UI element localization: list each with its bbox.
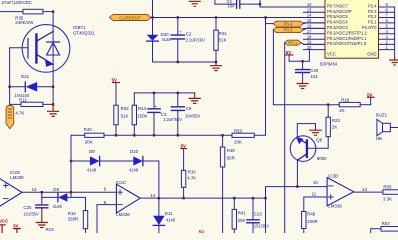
svg-text:BUZ1: BUZ1 — [376, 113, 388, 118]
svg-text:P2.1: P2.1 — [368, 20, 377, 25]
wire D9 to D10 — [100, 160, 134, 162]
IGBT gate bar — [27, 39, 29, 59]
node R12 right — [52, 103, 54, 105]
svg-text:20K: 20K — [238, 218, 246, 223]
svg-text:104: 104 — [310, 74, 318, 79]
IC U1 MCU body — [325, 0, 379, 58]
node D21 right — [52, 86, 54, 88]
ground below C20 — [297, 84, 308, 89]
node C23 — [252, 197, 254, 199]
svg-text:13: 13 — [362, 187, 367, 192]
svg-text:2K: 2K — [332, 125, 337, 130]
svg-text:C3: C3 — [161, 112, 167, 117]
svg-text:D11: D11 — [165, 211, 173, 216]
capacitor C9 — [177, 93, 179, 107]
svg-text:IC2C: IC2C — [116, 180, 126, 185]
wire base net P0.3 to R19 — [273, 104, 339, 106]
svg-text:56R: 56R — [227, 155, 235, 160]
node C2 top — [177, 16, 179, 18]
node bus R32 — [115, 134, 117, 136]
resistor R22 — [327, 105, 329, 118]
svg-text:CURRENT: CURRENT — [119, 15, 141, 20]
svg-text:4.7K: 4.7K — [15, 110, 24, 115]
wire D30/C2 bottoms to ground — [153, 61, 217, 63]
node D9 tap — [70, 160, 72, 162]
ground below R31 — [211, 66, 222, 71]
svg-text:R49: R49 — [227, 148, 236, 153]
node R22 top — [327, 104, 329, 106]
svg-text:IC3D: IC3D — [328, 173, 338, 178]
IGBT internal diode — [47, 41, 60, 43]
wire top vertical into CURRENT node — [152, 0, 154, 18]
svg-text:51K: 51K — [219, 38, 227, 43]
svg-text:.27uF/1200VDC: .27uF/1200VDC — [1, 0, 33, 5]
svg-text:C20: C20 — [310, 68, 319, 73]
wire R35 to node — [43, 11, 53, 13]
svg-text:100R: 100R — [307, 219, 318, 224]
wire analog bus — [104, 134, 232, 136]
node bus C9 — [177, 134, 179, 136]
diode D9 — [71, 160, 90, 162]
svg-text:GND: GND — [367, 51, 376, 56]
wire to MCU pin12 — [260, 0, 325, 7]
svg-text:R50: R50 — [234, 128, 243, 133]
svg-text:51K: 51K — [121, 113, 129, 118]
svg-text:P0.3: P0.3 — [283, 28, 293, 33]
svg-text:P2.2: P2.2 — [368, 14, 377, 19]
capacitor C2 — [177, 18, 179, 36]
svg-text:R48: R48 — [307, 212, 316, 217]
capacitor C6 — [215, 0, 236, 4]
node R10 — [182, 197, 184, 199]
connector pin 1 (yellow) — [6, 105, 14, 128]
svg-text:20K: 20K — [234, 140, 242, 145]
resistor R32 — [114, 105, 118, 125]
svg-text:R10: R10 — [188, 170, 197, 175]
svg-text:13: 13 — [32, 187, 37, 192]
svg-text:104/35V: 104/35V — [185, 113, 201, 118]
wire emitter down — [52, 42, 54, 87]
svg-text:104: 104 — [228, 3, 236, 8]
capacitor C20 — [302, 61, 304, 69]
resistor R35 — [23, 9, 43, 14]
IGBT emitter diagonal — [37, 55, 53, 65]
wire top-left bus to R35 — [0, 11, 23, 13]
wire D8 to R15 — [67, 197, 85, 210]
node riser pin10 — [264, 197, 266, 199]
svg-text:P2.4: P2.4 — [368, 4, 377, 9]
ground right of bus — [194, 93, 196, 98]
svg-text:D9: D9 — [89, 149, 95, 154]
svg-text:R15: R15 — [68, 211, 77, 216]
svg-text:R32: R32 — [121, 106, 130, 111]
svg-text:P0.3/ADC3: P0.3/ADC3 — [327, 25, 348, 30]
wire P0.1 net down — [284, 43, 286, 233]
svg-text:C25: C25 — [23, 205, 32, 210]
svg-text:4148: 4148 — [162, 37, 172, 42]
port P0.1 — [285, 40, 301, 45]
svg-text:R44: R44 — [138, 106, 147, 111]
node R40 riser — [70, 191, 72, 193]
ground emitter — [310, 130, 322, 135]
node bus R44 — [133, 134, 135, 136]
port CURRENT — [109, 14, 151, 20]
wire gate lead — [10, 47, 28, 49]
svg-text:5V: 5V — [13, 224, 18, 229]
ground MCU pin1 — [394, 57, 396, 59]
svg-text:HB: HB — [376, 136, 382, 141]
wire P0.4 tip to pin15 — [303, 22, 325, 25]
svg-text:150K: 150K — [137, 113, 147, 118]
svg-text:10: 10 — [313, 180, 318, 185]
node R41 — [233, 197, 235, 199]
resistor R49 — [222, 135, 224, 147]
capacitor C3 — [153, 93, 155, 109]
svg-text:P0.7/ADC7: P0.7/ADC7 — [327, 4, 348, 9]
svg-text:20K: 20K — [85, 140, 93, 145]
svg-text:C23: C23 — [254, 211, 263, 216]
svg-text:P0.2/ADC2/RST/P1.2: P0.2/ADC2/RST/P1.2 — [327, 30, 368, 35]
svg-text:20: 20 — [307, 45, 312, 50]
svg-text:GT40Q321: GT40Q321 — [73, 31, 95, 36]
svg-text:16: 16 — [307, 24, 312, 29]
diode D30 — [152, 18, 154, 35]
port P0.3 — [273, 27, 303, 32]
svg-text:D8: D8 — [53, 187, 59, 192]
node R31 bottom — [215, 61, 217, 63]
svg-text:C9: C9 — [186, 106, 192, 111]
wire P0.4 tip left — [266, 23, 274, 25]
svg-text:R41: R41 — [238, 211, 247, 216]
transistor Q6 — [290, 136, 316, 162]
svg-text:VCC: VCC — [327, 51, 336, 56]
node D11 — [158, 197, 160, 199]
node C6 right — [259, 3, 261, 5]
capacitor C23 — [252, 198, 254, 220]
IGBT emitter arrow — [45, 59, 53, 67]
svg-text:P0.1: P0.1 — [288, 40, 298, 45]
wire R22 to base — [307, 137, 328, 149]
IGBT body bar — [35, 35, 37, 63]
wire riser to IC3D pin10 — [266, 187, 328, 233]
wire P0.1 tip to pin19 — [301, 43, 325, 45]
svg-text:4148: 4148 — [87, 168, 97, 173]
resistor R41 — [233, 198, 235, 209]
node P0.4 riser — [264, 16, 266, 18]
svg-text:VCC: VCC — [0, 218, 9, 223]
wire IC2C pin8 — [97, 205, 116, 233]
svg-text:R40: R40 — [84, 127, 93, 132]
transistor IGBT1 circle — [22, 25, 70, 73]
svg-text:2.2uF/50V: 2.2uF/50V — [163, 117, 182, 122]
wire collector down — [296, 160, 298, 186]
svg-text:SDP9454: SDP9454 — [320, 62, 338, 67]
svg-text:5V: 5V — [181, 143, 186, 148]
svg-text:330R: 330R — [68, 217, 79, 222]
svg-text:4.7K: 4.7K — [187, 175, 196, 180]
svg-text:4148: 4148 — [166, 217, 176, 222]
svg-text:17: 17 — [307, 29, 312, 34]
svg-text:Q6: Q6 — [316, 138, 322, 143]
wire R44/C3/C9 top bus — [134, 92, 194, 94]
svg-text:P0.4/ADC4: P0.4/ADC4 — [327, 20, 348, 25]
svg-text:LM339: LM339 — [116, 212, 130, 217]
IGBT collector diagonal — [37, 32, 53, 42]
svg-text:8050: 8050 — [317, 156, 327, 161]
svg-text:D30: D30 — [161, 32, 170, 37]
node bus R49 — [221, 134, 223, 136]
IC U1 right pin numbers 9-1 — [386, 2, 389, 50]
wire D10 to comparator output — [143, 161, 159, 198]
node D30 top — [151, 16, 153, 18]
wire collector drop — [52, 12, 54, 42]
svg-text:11: 11 — [312, 192, 317, 197]
svg-text:D10: D10 — [130, 149, 139, 154]
svg-text:P2.0/T0: P2.0/T0 — [362, 25, 377, 30]
diode D8 — [42, 196, 58, 198]
svg-text:101/35V: 101/35V — [254, 223, 270, 228]
svg-text:LM339: LM339 — [328, 203, 342, 208]
svg-text:14: 14 — [150, 193, 155, 198]
ground at top edge — [189, 1, 200, 6]
svg-text:R31: R31 — [219, 31, 228, 36]
svg-text:P0.4: P0.4 — [283, 21, 293, 26]
svg-text:4148: 4148 — [129, 168, 139, 173]
wire IC2C out — [140, 197, 265, 199]
resistor R10 — [181, 170, 185, 187]
wire emitter to R12 level — [52, 87, 54, 105]
node C9 top — [177, 92, 179, 94]
svg-text:12: 12 — [307, 2, 312, 7]
port P0.4 — [273, 21, 303, 26]
IC U1 internal labels — [327, 4, 377, 57]
svg-text:R54: R54 — [382, 221, 391, 226]
svg-text:2K: 2K — [339, 108, 344, 113]
node collector tap — [296, 185, 298, 187]
node bus C3 — [153, 134, 155, 136]
svg-text:3.3K: 3.3K — [383, 197, 392, 202]
wire D21 left lead — [10, 86, 26, 88]
svg-text:C2: C2 — [186, 31, 192, 36]
wire D21 right lead — [37, 86, 53, 88]
node C2 bottom — [177, 61, 179, 63]
node C3 top — [153, 92, 155, 94]
wire CURRENT net to MCU pin14 — [151, 17, 325, 19]
resistor R31 — [215, 18, 217, 31]
svg-text:15: 15 — [307, 18, 312, 23]
wire P0.3 net down — [272, 30, 274, 105]
resistor R44 — [133, 93, 135, 105]
svg-text:P0.0/ADC0/TxD/P1.0: P0.0/ADC0/TxD/P1.0 — [327, 41, 367, 46]
svg-text:IGBT1: IGBT1 — [73, 25, 86, 30]
wire gate vertical — [9, 48, 11, 106]
diode D11 — [158, 198, 160, 216]
svg-text:R19: R19 — [341, 97, 350, 102]
svg-text:LM339: LM339 — [10, 175, 24, 180]
IC U1 left pin numbers 12-20 — [307, 2, 312, 50]
ground below C25 — [36, 223, 47, 228]
wire R50 right riser to P0.4 net — [254, 18, 265, 136]
node D21 left — [8, 86, 10, 88]
capacitor C25 — [41, 192, 43, 205]
svg-text:D21: D21 — [21, 74, 30, 79]
wire emitter to ground — [297, 124, 315, 138]
svg-text:R22: R22 — [332, 118, 341, 123]
resistor R48 — [302, 212, 306, 229]
IC U1 left pin stubs — [303, 7, 325, 50]
wire right pins common bus — [394, 7, 396, 57]
wire R19 to 5V — [360, 104, 371, 106]
svg-text:+: + — [179, 29, 182, 34]
svg-text:5V: 5V — [112, 77, 117, 82]
diode D21 — [24, 82, 26, 92]
svg-text:R55: R55 — [383, 184, 392, 189]
wire P0.3 tip to pin16 — [303, 28, 325, 30]
wire IC3D pin11 to R48 — [304, 197, 327, 212]
wire IC2D out to IC2C in9 — [22, 191, 116, 193]
svg-text:101/35V: 101/35V — [23, 211, 39, 216]
IC U1 right pin stubs — [379, 7, 395, 57]
svg-text:14: 14 — [307, 13, 312, 18]
svg-text:R13: R13 — [46, 227, 55, 232]
node R31 top — [215, 16, 217, 18]
node C25/D8 tap — [41, 191, 43, 193]
svg-text:240K/2W: 240K/2W — [15, 20, 34, 25]
wire R40 left riser — [70, 135, 72, 197]
node junction at collector top — [52, 10, 54, 12]
svg-text:4148: 4148 — [53, 204, 63, 209]
svg-text:P0.5/ADC5: P0.5/ADC5 — [327, 14, 348, 19]
node C20 top — [301, 60, 303, 62]
svg-text:5V: 5V — [199, 229, 204, 233]
ground below R12 — [52, 104, 54, 111]
svg-text:2.2uF/16V: 2.2uF/16V — [186, 38, 205, 43]
